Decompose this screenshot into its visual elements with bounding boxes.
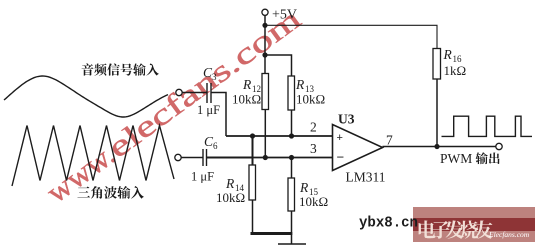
ground	[278, 243, 306, 245]
wire C3 left	[182, 92, 207, 94]
svg-text:10kΩ: 10kΩ	[232, 92, 261, 107]
capacitor C3 input terminal	[176, 89, 182, 95]
svg-text:6: 6	[213, 141, 218, 151]
node R12/pin3	[263, 155, 268, 160]
sine wave (audio input waveform)	[4, 76, 168, 117]
svg-text:1 μF: 1 μF	[197, 103, 220, 117]
svg-text:10kΩ: 10kΩ	[216, 190, 245, 205]
wire C6 left	[181, 157, 203, 159]
svg-text:Elecfans.com: Elecfans.com	[488, 230, 530, 239]
wire R13 bottom lead to pin2 line	[291, 110, 293, 136]
capacitor C6	[202, 149, 204, 166]
svg-text:R: R	[443, 47, 453, 62]
svg-text:7: 7	[386, 133, 393, 148]
triangle input label 三角波输入	[77, 187, 90, 198]
+5V terminal	[262, 9, 268, 15]
wire +5V vertical	[264, 15, 266, 73]
wire R15 bottom lead	[291, 211, 293, 244]
resistor R12	[262, 74, 269, 110]
svg-text:PWM: PWM	[440, 151, 472, 166]
op-amp U3 (LM311 comparator)	[333, 125, 383, 171]
svg-text:R: R	[299, 180, 309, 195]
svg-text:LM311: LM311	[346, 170, 386, 185]
svg-text:+5V: +5V	[272, 7, 297, 22]
wire R14 bottom lead	[252, 200, 254, 234]
resistor R13	[288, 76, 295, 110]
svg-text:10kΩ: 10kΩ	[299, 194, 328, 209]
square wave (PWM waveform)	[442, 116, 533, 136]
svg-text:1kΩ: 1kΩ	[444, 63, 467, 78]
capacitor C3	[206, 83, 208, 103]
svg-text:R: R	[295, 77, 305, 92]
wire pin3 line	[207, 157, 253, 159]
capacitor C6 input terminal	[175, 154, 181, 160]
resistor R14	[249, 165, 256, 200]
watermark www.elecfans.com	[41, 2, 307, 209]
svg-text:+: +	[337, 132, 343, 144]
wire C3 right to pin2	[211, 93, 226, 137]
triangle wave (triangle input waveform)	[12, 126, 174, 187]
svg-text:R: R	[225, 176, 235, 191]
wire R15 top lead	[291, 158, 293, 179]
node R15/pin3	[289, 155, 294, 160]
node R13/pin2	[289, 133, 294, 138]
svg-text:3: 3	[310, 141, 317, 156]
wire top rail to R16	[265, 25, 437, 48]
svg-text:R: R	[242, 77, 252, 92]
PWM output terminal	[496, 143, 502, 149]
resistor R15	[288, 178, 295, 211]
svg-text:10kΩ: 10kΩ	[296, 92, 325, 107]
node R16/output	[434, 144, 439, 149]
svg-text:U3: U3	[338, 112, 355, 127]
wire R16 bottom lead	[436, 79, 438, 147]
svg-text:1 μF: 1 μF	[191, 170, 214, 184]
svg-text:2: 2	[310, 120, 317, 135]
wire R14 top lead	[252, 136, 254, 165]
wire bottom bold (R14 to R15)	[251, 232, 293, 235]
wire branch to R13	[265, 55, 292, 76]
audio input label 音频信号输入	[82, 63, 94, 75]
node: +5V top rail junction	[262, 23, 267, 28]
resistor R16	[433, 49, 441, 80]
wire pin2 line	[226, 135, 333, 137]
node R14/pin2	[250, 133, 255, 138]
svg-text:ybx8.cn: ybx8.cn	[359, 216, 418, 232]
svg-text:−: −	[337, 150, 345, 165]
wire R12 bottom lead to pin3 line	[264, 110, 266, 158]
elecfans logo banner	[413, 207, 535, 242]
wire output	[383, 146, 496, 148]
svg-text:3: 3	[212, 72, 217, 82]
node: R12/R13 branch junction	[262, 52, 267, 57]
